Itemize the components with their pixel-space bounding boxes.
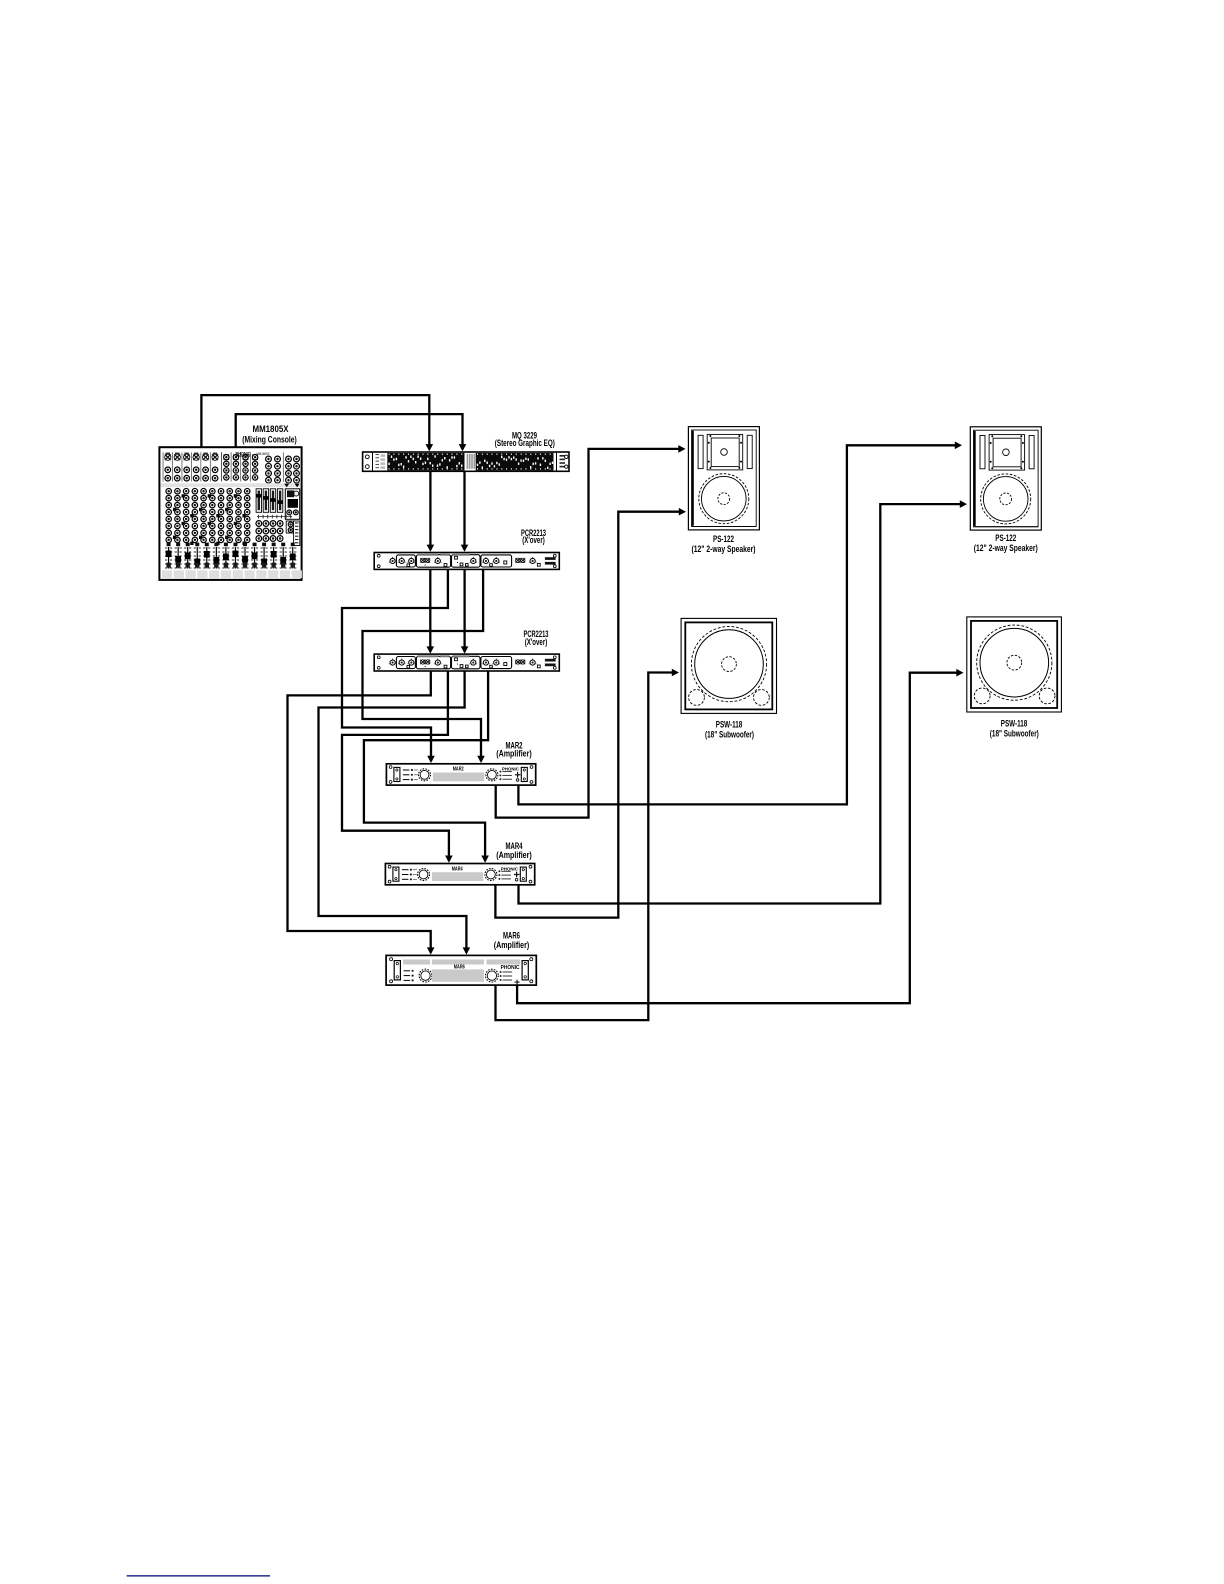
svg-text:PHONIC: PHONIC <box>501 965 520 971</box>
svg-text:PHONIC: PHONIC <box>236 451 252 456</box>
svg-text:MAR4: MAR4 <box>452 866 463 872</box>
svg-text:(Stereo Graphic EQ): (Stereo Graphic EQ) <box>495 438 555 448</box>
svg-text:(Mixing Console): (Mixing Console) <box>242 434 297 444</box>
svg-text:MM1805X: MM1805X <box>253 424 289 434</box>
svg-text:(12" 2-way Speaker): (12" 2-way Speaker) <box>692 544 756 554</box>
svg-text:PS-122: PS-122 <box>713 534 734 544</box>
svg-text:(18" Subwoofer): (18" Subwoofer) <box>705 729 754 739</box>
svg-text:(18" Subwoofer): (18" Subwoofer) <box>990 729 1039 739</box>
svg-text:(Amplifier): (Amplifier) <box>496 850 532 860</box>
svg-text:MM1805X: MM1805X <box>257 452 270 456</box>
svg-text:PS-122: PS-122 <box>995 533 1016 543</box>
svg-text:(Amplifier): (Amplifier) <box>494 940 530 950</box>
svg-text:(12" 2-way Speaker): (12" 2-way Speaker) <box>974 543 1038 553</box>
svg-text:(X'over): (X'over) <box>525 637 548 647</box>
svg-text:(Amplifier): (Amplifier) <box>496 749 532 759</box>
svg-text:(X'over): (X'over) <box>522 535 545 545</box>
svg-text:MAR2: MAR2 <box>453 767 464 773</box>
svg-text:PSW-118: PSW-118 <box>1001 718 1028 728</box>
svg-text:PSW-118: PSW-118 <box>716 720 743 730</box>
